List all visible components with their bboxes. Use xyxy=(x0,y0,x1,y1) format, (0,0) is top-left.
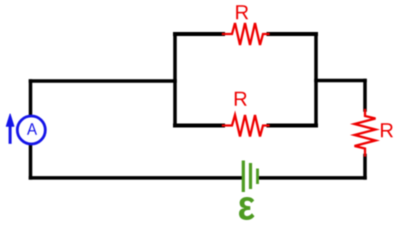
wire left vertical xyxy=(29,81,33,178)
wire right horizontal xyxy=(316,79,365,83)
wire parallel-combination right vertical (node B) xyxy=(314,34,318,126)
battery B1 plate short xyxy=(256,169,259,185)
resistor R2 middle xyxy=(223,115,269,137)
label A (ammeter) xyxy=(27,123,37,135)
resistor R1 top xyxy=(223,23,269,45)
battery B1 plate long xyxy=(242,161,245,193)
ammeter A1 circle xyxy=(17,116,45,144)
wire right vertical lower xyxy=(363,156,367,178)
wire bottom branch right xyxy=(269,124,317,128)
wire parallel-combination left vertical (node A) xyxy=(173,34,177,126)
wire top-left horizontal xyxy=(31,79,176,83)
label R (resistor R2) xyxy=(235,92,247,106)
battery B1 plate medium xyxy=(249,163,252,189)
resistor R3 right xyxy=(355,110,376,156)
label R (resistor R1) xyxy=(236,5,248,19)
current arrow xyxy=(9,124,12,144)
wire top branch left xyxy=(175,32,223,36)
label epsilon (EMF of battery B1) xyxy=(239,197,255,220)
wire bottom right xyxy=(261,176,366,180)
label R (resistor R3) xyxy=(381,123,393,137)
wire right vertical upper xyxy=(363,81,367,111)
wire top branch right xyxy=(269,32,317,36)
wire bottom branch left xyxy=(175,124,223,128)
wire bottom left xyxy=(31,176,243,180)
